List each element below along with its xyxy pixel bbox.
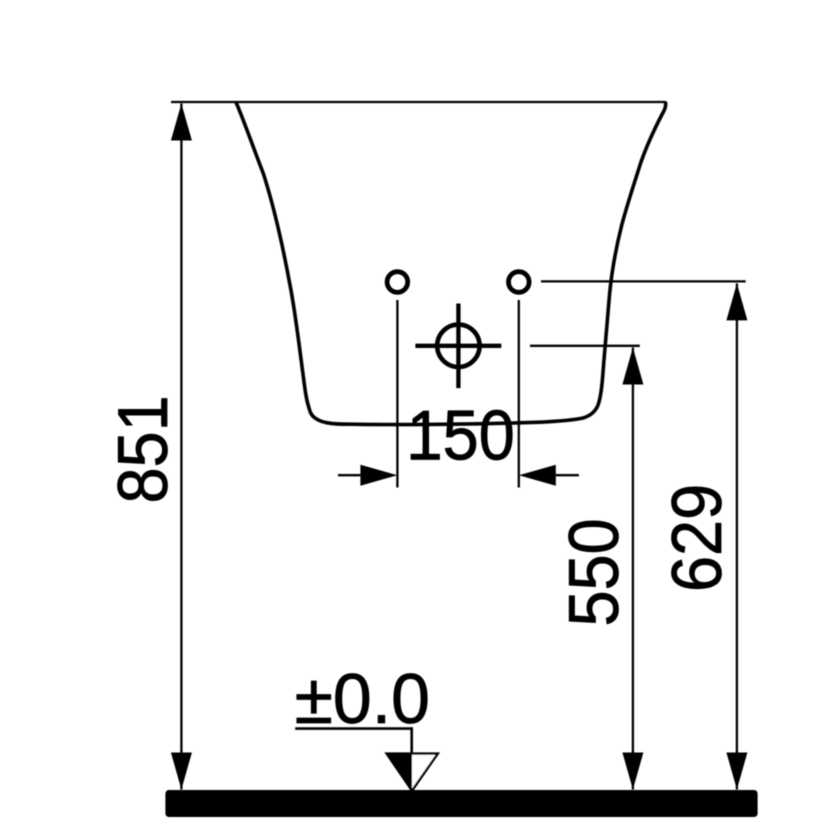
floor bar	[165, 790, 757, 817]
svg-text:851: 851	[105, 395, 183, 503]
dimension 629 top arrow	[726, 283, 747, 320]
center mark circle	[437, 325, 479, 367]
mounting hole right	[509, 272, 530, 293]
basin outline	[236, 103, 665, 425]
dimension 150 left arrow	[360, 465, 397, 486]
svg-text:629: 629	[659, 484, 737, 592]
dimension 851 bottom arrow	[171, 753, 192, 790]
datum underline	[295, 727, 413, 730]
extension line hole left	[396, 300, 398, 488]
dimension 550 bottom arrow	[622, 753, 643, 790]
mounting hole left	[387, 272, 408, 293]
dimension 851 top arrow	[171, 104, 192, 141]
dimension 851 line	[180, 104, 182, 790]
dimension 629 bottom arrow	[726, 753, 747, 790]
extension line hole right	[518, 300, 520, 488]
dimension 150 left tail	[338, 474, 360, 476]
dimension 851 label foot serif of 1	[161, 401, 167, 425]
extension line hole to 629	[541, 280, 746, 282]
svg-text:550: 550	[556, 518, 634, 626]
top edge line with extension	[171, 101, 666, 103]
svg-text:150: 150	[407, 397, 515, 475]
dimension 150 right tail	[556, 474, 579, 476]
dimension 150 right arrow	[519, 465, 556, 486]
extension line center mark to 550	[530, 345, 640, 347]
center mark horizontal line	[415, 344, 501, 348]
dimension 550 line	[632, 348, 634, 790]
datum triangle outline	[387, 754, 438, 791]
dimension 550 top arrow	[622, 348, 643, 385]
datum leader drop	[410, 727, 413, 753]
center mark vertical line	[456, 304, 460, 389]
dimension 629 line	[736, 283, 738, 789]
datum triangle filled half	[387, 754, 412, 791]
svg-text:±0.0: ±0.0	[295, 660, 430, 738]
dimension 150 label foot serif of 1	[411, 454, 438, 460]
